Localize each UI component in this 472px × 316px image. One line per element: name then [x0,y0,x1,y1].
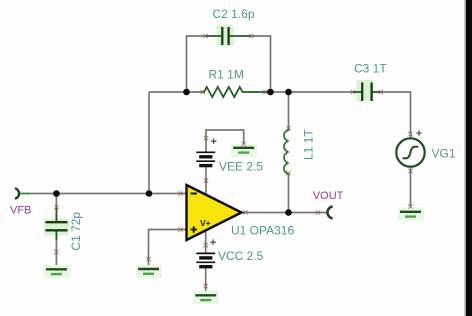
junction node dots [53,89,292,216]
wire feedback net, R1 left segment [149,91,203,93]
pin x marks [54,34,412,288]
plus sign input [191,226,198,233]
wire VG1 to ground [410,167,412,211]
resistor R1 [202,87,267,97]
battery VCC [196,253,215,266]
svg-text:C2 1.6p: C2 1.6p [213,7,255,21]
svg-text:L1 1T: L1 1T [302,129,316,160]
wire L1 upper branch [288,92,290,129]
wire C1 to ground [55,232,57,269]
wire C1 top branch [55,194,57,222]
op-amp U1 [187,185,242,240]
svg-text:C1 72p: C1 72p [69,212,83,251]
plus mark VEE [211,138,217,144]
battery VEE [196,152,215,165]
svg-text:VEE 2.5: VEE 2.5 [219,160,263,174]
wire output line [242,212,328,214]
ground C1 [44,265,70,278]
svg-text:VFB: VFB [10,204,31,216]
right edge black bar [465,0,467,316]
wire VFB green stub [20,193,29,195]
wire plus input to ground [149,230,187,267]
capacitor C1 [44,207,69,240]
capacitor C2 [206,25,251,46]
svg-text:U1 OPA316: U1 OPA316 [231,224,294,238]
wire VFB line [27,193,187,195]
generator VG1 [396,138,424,166]
svg-text:VOUT: VOUT [313,190,344,202]
wire C2 left branch [187,36,207,92]
svg-text:VG1: VG1 [432,147,456,161]
wire feedback net, R1 to C3 segment [264,91,353,93]
wire op-amp V+ pin to VCC battery [205,228,207,253]
connector VOUT [327,207,332,219]
ground VEE [231,144,257,157]
wire L1 lower branch [288,173,290,213]
plus mark VCC [210,239,216,245]
inductor L1 [284,129,289,174]
wire VCC battery to ground [205,268,207,295]
connector VFB [15,188,19,198]
ground VCC [193,291,219,304]
wire C2 right branch [251,36,271,92]
ground VG1 [398,208,424,221]
svg-text:VCC 2.5: VCC 2.5 [218,249,264,263]
svg-text:R1 1M: R1 1M [209,68,244,82]
minus sign input [191,193,198,195]
ground opamp plus input [136,265,162,278]
wire C3 to VG1 top [381,92,411,138]
wire VEE battery to op-amp V- pin [205,166,207,196]
svg-text:V+: V+ [200,218,211,228]
wire VEE battery to ground loop [206,130,244,152]
svg-text:C3 1T: C3 1T [354,62,387,76]
plus mark VG1 [416,130,422,136]
wire vertical R1 corner to VFB line [148,92,150,194]
capacitor C3 [353,80,381,101]
